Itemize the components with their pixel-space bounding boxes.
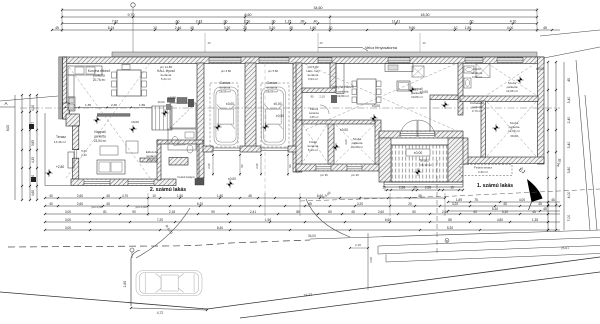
svg-text:Kamra: Kamra: [310, 107, 319, 111]
dark beam bar: [97, 114, 130, 117]
floor symbol: [226, 180, 233, 187]
car clearance dashed: [210, 83, 238, 147]
tv cabinet: [126, 141, 138, 153]
svg-text:19,80 m²: 19,80 m²: [337, 94, 349, 98]
svg-text:1. számú lakás: 1. számú lakás: [477, 183, 513, 189]
sidewalk bands: [378, 238, 600, 247]
svg-text:11,41: 11,41: [392, 19, 400, 23]
dim extension left: [61, 8, 63, 32]
svg-text:1,15: 1,15: [285, 19, 292, 23]
svg-text:2,41: 2,41: [250, 210, 256, 214]
right outer wall: [538, 57, 545, 164]
svg-text:2,46: 2,46: [175, 26, 182, 30]
svg-text:2,60: 2,60: [378, 210, 384, 214]
svg-text:parketta: parketta: [94, 135, 106, 139]
svg-text:1,80: 1,80: [465, 26, 472, 30]
cabinet top right apt: [385, 64, 413, 72]
svg-text:10: 10: [152, 194, 156, 198]
svg-text:3,80: 3,80: [567, 167, 571, 174]
terrace right pier: [448, 138, 463, 182]
floor symbol garage: [214, 123, 221, 130]
kitchen counter right apartment: [336, 64, 344, 94]
svg-text:7,82: 7,82: [112, 19, 119, 23]
svg-text:8,40: 8,40: [217, 226, 223, 230]
svg-text:4,00: 4,00: [519, 198, 525, 202]
svg-text:Garázs: Garázs: [220, 81, 231, 85]
svg-text:45: 45: [551, 198, 555, 202]
hats hely south wall: [302, 88, 336, 93]
svg-text:45: 45: [289, 26, 293, 30]
svg-text:3,00: 3,00: [344, 139, 348, 145]
top outer wall: [59, 57, 544, 64]
partition kozlekedo: [430, 95, 458, 100]
svg-text:45: 45: [55, 26, 59, 30]
svg-text:3,40: 3,40: [567, 97, 571, 104]
svg-text:2,85: 2,85: [123, 281, 127, 288]
partition above bath: [157, 140, 203, 144]
axis guide: [317, 33, 319, 52]
svg-text:4,60: 4,60: [31, 190, 35, 196]
dim extension right: [536, 8, 538, 32]
right apt bottom wall: [296, 164, 387, 171]
svg-text:4,80: 4,80: [497, 218, 503, 222]
living front wall at terrace: [379, 131, 463, 138]
svg-text:parketta: parketta: [93, 74, 105, 78]
svg-text:5,40 m²: 5,40 m²: [308, 148, 318, 152]
svg-text:±0,00: ±0,00: [420, 90, 428, 94]
terrace door opening: [400, 132, 435, 137]
fedett terasz box: [460, 165, 512, 176]
floor symbol: [93, 116, 100, 123]
svg-text:25,81: 25,81: [561, 246, 569, 250]
svg-text:3,20: 3,20: [269, 26, 276, 30]
svg-text:15,12 m²: 15,12 m²: [420, 163, 432, 167]
dashed slope lines bedroom2: [487, 102, 536, 156]
svg-text:2,43: 2,43: [196, 19, 203, 23]
section line A-A: [20, 107, 560, 109]
svg-text:45: 45: [543, 26, 547, 30]
svg-text:pm 0,90: pm 0,90: [92, 205, 103, 209]
svg-text:2,60: 2,60: [77, 202, 83, 206]
bottom wall left apartment: [71, 179, 176, 186]
svg-text:45: 45: [532, 210, 536, 214]
svg-text:Fedett belépő: Fedett belépő: [177, 175, 195, 179]
terrace door arcs: [400, 120, 435, 137]
svg-text:3,00: 3,00: [65, 218, 71, 222]
svg-text:18,56 m²: 18,56 m²: [266, 90, 278, 94]
partition bath right apt: [458, 63, 463, 115]
cabinet lower left: [68, 152, 74, 168]
dim row 2: [61, 13, 538, 18]
svg-text:4,72: 4,72: [157, 311, 164, 315]
partition left of bath: [157, 140, 161, 180]
svg-text:3,20: 3,20: [224, 26, 231, 30]
svg-text:pm 0,90: pm 0,90: [136, 205, 147, 209]
central terrace hatched: [391, 145, 448, 182]
dashed slope lines szoba mid: [336, 125, 374, 162]
svg-text:5,30: 5,30: [492, 207, 498, 211]
svg-text:±0,00: ±0,00: [274, 102, 282, 106]
svg-text:45: 45: [538, 202, 542, 206]
dashed slope lines furdo: [303, 125, 327, 162]
hall dark door cluster: [167, 98, 175, 103]
svg-text:7,20: 7,20: [157, 218, 163, 222]
svg-text:85: 85: [448, 218, 452, 222]
axis guide: [204, 33, 206, 52]
svg-text:45: 45: [503, 202, 507, 206]
dark door block right apt: [331, 95, 337, 103]
garage2 right wall: [293, 63, 299, 172]
left outer wall upper: [63, 57, 67, 119]
top wall window strips: [209, 58, 241, 63]
eloszoba-porch stub wall: [169, 158, 188, 166]
floor symbol: [441, 101, 448, 108]
left wall corner block: [63, 103, 70, 119]
svg-text:20,76 m²: 20,76 m²: [93, 78, 106, 82]
svg-text:pm 5,80: pm 5,80: [268, 69, 279, 73]
left wall gray layer: [59, 57, 63, 119]
bottom dim row1: [44, 194, 446, 199]
svg-text:4,00: 4,00: [567, 192, 571, 199]
property boundary top-right: [544, 47, 600, 58]
garage divider wall: [245, 63, 256, 150]
svg-text:2,60: 2,60: [255, 163, 259, 169]
dim row 3: [61, 19, 538, 24]
svg-text:4,62 m²: 4,62 m²: [472, 75, 482, 79]
svg-text:±0,00: ±0,00: [226, 102, 234, 106]
svg-text:18,30: 18,30: [421, 13, 430, 17]
svg-text:1,80: 1,80: [310, 26, 317, 30]
svg-text:±0,00: ±0,00: [510, 134, 518, 138]
svg-text:12,00 m²: 12,00 m²: [508, 129, 520, 133]
svg-text:1,65 m²: 1,65 m²: [309, 115, 318, 119]
property boundary top-left: [0, 96, 58, 101]
svg-text:Nappali: Nappali: [94, 130, 106, 134]
svg-text:40: 40: [49, 194, 53, 198]
terrace left pier: [379, 138, 391, 182]
svg-text:kerámia: kerámia: [309, 111, 319, 115]
car clearance dashed: [261, 83, 289, 147]
driveway curve right: [306, 199, 350, 237]
svg-text:parketta: parketta: [338, 90, 349, 94]
svg-text:9,50: 9,50: [409, 26, 416, 30]
svg-text:45: 45: [351, 210, 355, 214]
corner block upper: [29, 124, 34, 129]
B marker: [445, 239, 449, 243]
svg-text:3,76 m²: 3,76 m²: [472, 109, 482, 113]
svg-text:6,20: 6,20: [197, 202, 203, 206]
svg-text:15: 15: [382, 186, 386, 190]
svg-text:±0,00: ±0,00: [276, 114, 284, 118]
svg-text:2,58: 2,58: [399, 186, 405, 190]
bottom dim row4: [44, 218, 560, 223]
floor symbol: [129, 125, 136, 132]
interior dim line kitchen: [65, 107, 154, 109]
svg-text:5,30: 5,30: [502, 210, 508, 214]
svg-text:13,46 m²: 13,46 m²: [54, 140, 66, 144]
svg-text:1,35: 1,35: [85, 103, 91, 107]
right apt west partition upper: [296, 63, 302, 123]
svg-text:2,15: 2,15: [355, 243, 361, 247]
floor symbol: [516, 76, 523, 83]
svg-text:45: 45: [543, 207, 547, 211]
right road band: [310, 230, 600, 239]
svg-text:9,70: 9,70: [128, 13, 135, 17]
road edge lines: [0, 292, 207, 309]
dining table right apartment: [357, 79, 376, 104]
svg-text:5,30: 5,30: [447, 226, 453, 230]
svg-text:6,60: 6,60: [385, 218, 391, 222]
svg-text:±0,00: ±0,00: [131, 120, 139, 124]
windows right apt bottom wall: [316, 165, 331, 170]
svg-text:3,00: 3,00: [65, 226, 71, 230]
svg-text:2,30 m²: 2,30 m²: [478, 170, 488, 174]
svg-text:7,00: 7,00: [567, 215, 571, 222]
svg-text:A: A: [4, 101, 7, 106]
car on driveway: [136, 271, 202, 296]
svg-text:2. számú lakás: 2. számú lakás: [150, 187, 186, 193]
svg-text:±0,00: ±0,00: [228, 177, 236, 181]
svg-text:±0,00: ±0,00: [536, 67, 544, 71]
bottom dim row right upper: [447, 198, 560, 203]
dim row 4: [51, 26, 560, 31]
velux label leader: [318, 47, 362, 49]
svg-text:23,54 m²: 23,54 m²: [94, 139, 107, 143]
svg-text:3,85: 3,85: [31, 140, 35, 146]
left terrace outline: [44, 113, 46, 186]
svg-text:4,94 m²: 4,94 m²: [308, 77, 318, 81]
living west wall upper: [73, 126, 79, 150]
svg-text:90: 90: [288, 164, 292, 168]
axis guide: [419, 33, 421, 52]
wardrobe right apartment: [412, 66, 424, 77]
svg-text:4,15: 4,15: [31, 157, 35, 163]
staircase left apartment: [152, 106, 172, 130]
svg-text:34,60: 34,60: [314, 6, 323, 10]
svg-text:4,70: 4,70: [510, 19, 517, 23]
svg-text:Terasz: Terasz: [419, 159, 429, 163]
living west wall lower: [73, 158, 79, 179]
dashed slope lines bedroom1: [487, 63, 536, 95]
svg-text:45: 45: [567, 78, 571, 82]
window opening bottom wall: [128, 180, 154, 185]
floor symbol: [414, 168, 421, 175]
svg-text:5,41 m²: 5,41 m²: [161, 77, 171, 81]
garage front pier left: [203, 146, 213, 152]
svg-text:3,52 m²: 3,52 m²: [147, 158, 157, 162]
svg-text:6,24: 6,24: [108, 26, 115, 30]
car in garage: [214, 87, 238, 145]
svg-text:90: 90: [311, 95, 314, 99]
stair landing: [170, 103, 196, 128]
svg-text:75: 75: [474, 198, 478, 202]
sofa right apartment: [397, 81, 410, 91]
velux light band: [112, 52, 537, 57]
partition bedroom2 left: [481, 101, 486, 157]
svg-text:45: 45: [190, 26, 194, 30]
kitchen counter: [68, 66, 102, 75]
bottom dim row5: [44, 226, 560, 231]
svg-text:2,40: 2,40: [567, 117, 571, 124]
svg-text:±0,00: ±0,00: [168, 96, 176, 100]
svg-text:3,20: 3,20: [357, 202, 363, 206]
R5 arc driveway: [136, 208, 190, 258]
svg-text:,40: ,40: [313, 19, 318, 23]
svg-text:45: 45: [106, 202, 110, 206]
svg-text:15: 15: [450, 186, 454, 190]
svg-text:pm 90: pm 90: [351, 173, 359, 177]
hats hely east wall: [330, 63, 336, 92]
svg-text:Terasz: Terasz: [56, 135, 66, 139]
svg-text:,10: ,10: [453, 26, 458, 30]
svg-text:2,30: 2,30: [111, 103, 117, 107]
svg-text:2,50: 2,50: [244, 19, 251, 23]
svg-text:90: 90: [240, 164, 244, 168]
svg-text:,60: ,60: [175, 19, 180, 23]
terrace label panel: [406, 149, 430, 156]
svg-text:10,00 m²: 10,00 m²: [351, 145, 363, 149]
living west wall opening: [73, 149, 79, 151]
floor symbol: [492, 124, 499, 131]
svg-text:2,60: 2,60: [207, 163, 211, 169]
svg-text:85: 85: [296, 210, 300, 214]
section marker A: [0, 106, 15, 108]
partition szoba right: [375, 120, 381, 164]
bottom dim row3: [44, 210, 560, 215]
right vertical dim lines: [547, 62, 549, 230]
svg-text:1,89: 1,89: [456, 198, 462, 202]
corridor wall line: [429, 99, 431, 131]
svg-text:40: 40: [49, 202, 53, 206]
svg-text:1,59: 1,59: [139, 103, 145, 107]
svg-text:1,50: 1,50: [177, 194, 183, 198]
driveway left edge: [130, 258, 132, 306]
dim 4.72 under car: [131, 308, 207, 310]
terrace bottom dim: [384, 189, 463, 191]
counter left run: [68, 75, 74, 97]
svg-text:90: 90: [211, 210, 215, 214]
svg-text:50: 50: [412, 210, 416, 214]
svg-text:20: 20: [408, 202, 412, 206]
svg-text:34,00: 34,00: [308, 234, 316, 238]
right apt west wall lower: [296, 120, 302, 172]
svg-text:2,40: 2,40: [81, 153, 87, 157]
svg-text:18,56 m²: 18,56 m²: [219, 90, 231, 94]
svg-text:4,70: 4,70: [122, 194, 128, 198]
svg-text:12,06 m²: 12,06 m²: [506, 89, 518, 93]
svg-text:B: B: [446, 239, 448, 243]
coffee table: [100, 146, 118, 155]
svg-text:1,80: 1,80: [217, 194, 223, 198]
car in garage: [262, 87, 286, 145]
svg-text:,99: ,99: [300, 19, 305, 23]
svg-text:+2,80: +2,80: [56, 165, 65, 169]
dim total 34.60: [61, 6, 538, 11]
svg-text:pm 90: pm 90: [320, 173, 328, 177]
svg-text:,90: ,90: [223, 19, 228, 23]
svg-text:±0,00: ±0,00: [414, 151, 423, 155]
garage front pier middle: [240, 146, 261, 152]
wall hall-garage1: [197, 63, 204, 178]
dashed slope lines left apartment: [66, 63, 150, 178]
bottom wall right section: [462, 157, 544, 164]
svg-text:1,35: 1,35: [532, 218, 538, 222]
survey point terrace: [45, 169, 52, 176]
svg-text:2,18: 2,18: [169, 210, 175, 214]
svg-text:90: 90: [132, 210, 136, 214]
svg-text:3,00: 3,00: [65, 210, 71, 214]
window opening bottom wall: [84, 180, 110, 185]
svg-text:45: 45: [473, 210, 477, 214]
bathroom right apartment fixtures: [464, 66, 474, 73]
partition etkezo: [140, 158, 157, 162]
floor symbol: [161, 109, 168, 116]
left vertical dim lines: [14, 95, 16, 200]
svg-text:8,60: 8,60: [245, 13, 252, 17]
partition above furdo/szoba: [302, 120, 375, 124]
terrace step strip: [384, 182, 463, 187]
svg-text:45: 45: [248, 194, 252, 198]
svg-text:3,20: 3,20: [452, 202, 458, 206]
floor symbol: [332, 143, 339, 150]
terrace right jamb: [462, 138, 468, 164]
svg-text:Garázs: Garázs: [267, 81, 278, 85]
svg-text:3,40: 3,40: [567, 142, 571, 149]
svg-text:10,00: 10,00: [158, 100, 165, 104]
svg-text:2,60: 2,60: [77, 194, 83, 198]
svg-text:Velux fénycsatorna: Velux fénycsatorna: [365, 46, 398, 50]
divider line x368: [367, 233, 369, 290]
svg-text:,60: ,60: [469, 19, 474, 23]
bath right wall line: [198, 144, 200, 179]
svg-text:pm 5,80: pm 5,80: [221, 69, 232, 73]
svg-text:19,80 m²: 19,80 m²: [411, 95, 423, 99]
svg-text:2,58: 2,58: [425, 186, 431, 190]
partition bedrooms: [460, 96, 538, 102]
floor symbol: [408, 86, 415, 93]
bottom dim row2: [44, 202, 561, 207]
svg-text:2,10: 2,10: [319, 95, 325, 99]
wc room below landing: [168, 129, 196, 150]
svg-text:60: 60: [328, 210, 332, 214]
partition furdo-szoba: [328, 123, 334, 164]
svg-text:3,00: 3,00: [369, 257, 373, 263]
svg-text:8,00: 8,00: [6, 125, 10, 131]
svg-text:45: 45: [106, 194, 110, 198]
garage front pier right: [288, 146, 299, 152]
svg-text:81: 81: [103, 210, 107, 214]
vertical dims under garage front: [212, 153, 214, 176]
svg-text:±0,00: ±0,00: [340, 128, 348, 132]
dining table left apartment: [117, 70, 141, 96]
svg-text:,90: ,90: [271, 19, 276, 23]
svg-text:Konyha étkező: Konyha étkező: [88, 69, 111, 73]
svg-text:10: 10: [153, 26, 157, 30]
corner block lower: [31, 177, 36, 182]
floor symbol garage: [262, 123, 269, 130]
svg-text:15: 15: [413, 186, 417, 190]
garage door lines: [213, 147, 240, 149]
svg-text:4,00: 4,00: [507, 26, 514, 30]
dashed boundary through road: [300, 189, 600, 201]
svg-text:1,90: 1,90: [265, 218, 271, 222]
floor symbol: [370, 114, 377, 121]
svg-text:±0,00: ±0,00: [372, 104, 380, 108]
left wall corner block 2: [66, 114, 79, 126]
dashed slope lines right apartment living: [305, 64, 455, 130]
right boundary line: [576, 60, 590, 230]
svg-text:Konyha étkező: Konyha étkező: [332, 85, 353, 89]
